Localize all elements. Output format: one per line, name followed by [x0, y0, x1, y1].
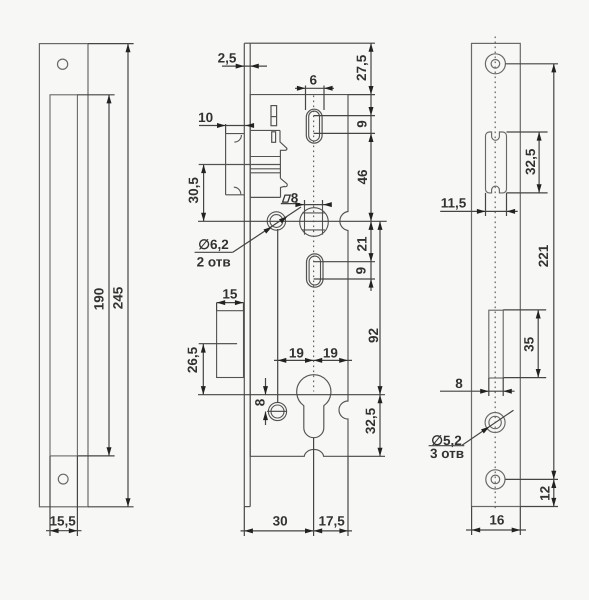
middle view: faceplate bottom edge [244, 506, 250, 508]
middle dim 15: ext line left [216, 303, 218, 311]
middle dim 30-17.5: line [241, 530, 353, 532]
right view: ext deadbolt slot right down [502, 378, 504, 396]
right dim 8: line [440, 390, 515, 392]
left view: extension line slot bottom [77, 455, 114, 457]
middle view: follower square hole top line [302, 212, 325, 214]
left view: dimension 245 top arrow [126, 44, 131, 53]
left view: extension line plate bottom [88, 506, 134, 508]
middle view: deadbolt center line [199, 343, 237, 345]
middle dim 8: top arrow [263, 386, 268, 395]
middle dim 9 bottom: lower arrow [369, 279, 374, 288]
middle dim square8: left arrow [295, 202, 304, 207]
middle view: latch head bevel arc bottom [234, 187, 241, 194]
svg-text:26,5: 26,5 [185, 346, 200, 373]
right dim 11.5: left arrow [477, 209, 486, 214]
middle view: lower oval slot inner [309, 256, 320, 285]
middle dim 32.5: label [363, 407, 378, 434]
right view: ext bottom hole center [505, 478, 558, 480]
middle dim 27.5: label [354, 54, 369, 81]
right view: ext plate right down [519, 507, 521, 536]
right dim 11.5: line [440, 210, 518, 212]
middle dim 27.5: top arrow [369, 43, 374, 52]
middle dim 10: label [198, 110, 213, 125]
middle dim 26.5: bottom arrow [201, 386, 206, 395]
middle view: follower circle [300, 208, 329, 237]
middle dim 30.5: top arrow [201, 165, 206, 174]
middle dim 8: label [253, 398, 268, 406]
svg-text:32,5: 32,5 [523, 148, 538, 175]
right dim 35: top arrow [536, 310, 541, 319]
middle dim 30.5: label [186, 177, 201, 204]
middle callout 6.2: label [198, 237, 229, 252]
middle view: latch mechanism bottom edge [250, 196, 280, 198]
middle view: latch head front rect left edge [225, 134, 227, 195]
svg-text:9: 9 [354, 120, 369, 128]
middle right col1: dimension line [370, 43, 372, 291]
middle view: upper fixing hole outer [267, 212, 285, 230]
middle dim 30.5: bottom arrow [201, 213, 206, 222]
left view: dimension 245 bottom arrow [126, 498, 131, 507]
middle dim 19-19: left arrow [278, 358, 287, 363]
left view: extension line slot right edge down [76, 456, 78, 536]
svg-text:16: 16 [489, 512, 505, 527]
middle dim square8: line [297, 204, 331, 206]
middle dim 10: right arrow [246, 123, 255, 128]
svg-text:15,5: 15,5 [49, 514, 76, 529]
right dim 11.5: label [441, 196, 467, 211]
middle view: latch mechanism catch tooth and lower edge [280, 178, 287, 197]
middle view: fixing holes vertical centerline [277, 229, 279, 403]
svg-text:9: 9 [354, 267, 369, 275]
middle view: latch spring line 3 [250, 172, 280, 174]
middle dim 21: label [355, 236, 370, 252]
middle dim 6: left arrow [297, 86, 306, 91]
middle dim 9 top: upper arrow [369, 107, 374, 116]
right dim 11.5: right arrow [507, 209, 516, 214]
middle view: small rect hole upper divider [271, 116, 277, 118]
svg-text:30,5: 30,5 [186, 177, 201, 204]
svg-text:2,5: 2,5 [218, 51, 237, 66]
middle view: latch head front rect bottom edge [226, 194, 245, 196]
middle dim 30-17.5: label 17.5 [318, 513, 345, 528]
middle dim 15: right arrow [235, 300, 244, 305]
middle dim 26.5: label [185, 346, 200, 373]
middle dim 19-19: label right [323, 346, 338, 361]
middle view: ext line cylinder horizontal centerline [198, 394, 385, 396]
middle dim 30.5: line [203, 165, 205, 222]
left view: dimension 190 bottom arrow [107, 447, 112, 456]
right dim 35: line [537, 310, 539, 378]
middle dim square8: ext right [322, 200, 324, 206]
middle dim 6: right arrow [324, 86, 333, 91]
right dim 16: label [489, 512, 505, 527]
svg-text:21: 21 [355, 236, 370, 252]
middle view: ext line body right down [347, 456, 349, 536]
right view: bottom screw hole outer [486, 470, 505, 489]
svg-text:27,5: 27,5 [354, 54, 369, 81]
right dim 12: bottom arrow [551, 498, 556, 507]
right view: middle fixing hole outer [485, 413, 505, 433]
right dim 8: left arrow [480, 389, 489, 394]
middle dim 92: label [366, 328, 381, 343]
left view: extension line plate top [88, 43, 134, 45]
middle view: latch spring line 2 [250, 168, 280, 170]
svg-text:17,5: 17,5 [318, 513, 345, 528]
middle view: lower fixing hole outer [268, 402, 286, 420]
middle view: latch head bevel arc top [234, 135, 241, 142]
right dim 12: top arrow [551, 479, 556, 488]
middle view: faceplate strip left line [243, 43, 245, 506]
right view: deadbolt slot rectangle [489, 310, 503, 378]
right dim 16: left arrow [472, 528, 481, 533]
svg-text:19: 19 [289, 346, 304, 361]
svg-text:19: 19 [323, 346, 338, 361]
middle dim 9 bottom: label [354, 267, 369, 275]
middle view: ext line top oval upper center [314, 115, 375, 117]
right dim 8: label [455, 376, 463, 391]
middle view: ext line body bottom to right [348, 455, 385, 457]
right view: middle fixing hole inner [489, 416, 501, 428]
right callout 5.2: label [431, 433, 462, 448]
right dim 32.5: label [523, 148, 538, 175]
middle dim 2.5: right arrow [250, 64, 259, 69]
left view: dimension 190 line [108, 95, 110, 456]
right view: ext latch slot right down [506, 193, 508, 216]
middle dim 46: label [355, 169, 370, 185]
middle dim square8: ext left [304, 200, 306, 206]
right dim 32.5: bottom arrow [537, 184, 542, 193]
middle dim 30-17.5: center arrow right [314, 528, 323, 533]
svg-text:3 отв: 3 отв [430, 446, 464, 461]
middle dim 8: top tail [265, 378, 267, 395]
middle view: faceplate top edge [244, 42, 250, 44]
middle callout 6.2: label otv [197, 255, 231, 270]
right dim 35: bottom arrow [536, 369, 541, 378]
left view: dimension 190 top arrow [107, 95, 112, 104]
svg-text:8: 8 [455, 376, 463, 391]
right view: ext latch slot top [507, 131, 548, 133]
middle dim 9 top: label [354, 120, 369, 128]
middle dim 92: top arrow [378, 221, 383, 230]
middle view: latch head front rect top edge [226, 133, 245, 135]
svg-text:2 отв: 2 отв [197, 255, 231, 270]
middle callout 6.2: leader arrow 2 [279, 217, 288, 224]
middle dim square8: symbol [283, 195, 291, 202]
right dim 221: label [536, 244, 551, 267]
right view: dotted centerline [494, 37, 496, 511]
middle view: ext line follower horizontal centerline [198, 220, 387, 222]
middle callout 6.2: underline [195, 251, 233, 253]
left view: top screw hole [58, 59, 68, 69]
right view: ext deadbolt slot top [503, 309, 546, 311]
middle dim 6: label [310, 73, 318, 88]
middle dim 8: bottom arrow [263, 412, 268, 421]
middle view: latch axis full line [199, 164, 281, 166]
middle dim 32.5: bottom arrow [378, 448, 383, 457]
svg-text:11,5: 11,5 [441, 196, 467, 211]
middle dim 32.5: top arrow [378, 395, 383, 404]
middle view: latch spring line 1 [250, 156, 280, 158]
left view: dimension 245 line [127, 44, 129, 507]
svg-text:221: 221 [536, 244, 551, 267]
left view: dimension 15.5 label [49, 514, 76, 529]
right dim 12: label [538, 486, 553, 501]
middle view: vertical dotted centerline [313, 96, 315, 392]
middle dim 2.5: left arrow [236, 64, 245, 69]
middle view: lower fixing hole horizontal centerline [267, 410, 287, 412]
right callout 5.2: label otv [430, 446, 464, 461]
right dim 35: label [522, 336, 537, 352]
middle dim 19-19: center arrow left [305, 358, 314, 363]
middle dim 10: ext line latch left edge up [225, 124, 227, 134]
right dim 221: bottom arrow [551, 471, 556, 480]
middle dim 6: line [295, 87, 334, 89]
middle dim 15: ext line right [243, 303, 245, 311]
right callout 5.2: leader line [462, 410, 514, 445]
middle dim 2.5: label [218, 51, 237, 66]
middle view: latch mechanism top edge [250, 129, 280, 131]
right view: faceplate front outline [472, 43, 521, 506]
svg-text:245: 245 [110, 286, 125, 309]
left view: dimension 190 label [92, 288, 107, 311]
middle dim 46: bottom arrow [369, 213, 374, 222]
right view: ext latch slot left down [485, 193, 487, 216]
middle view: follower square hole bottom line [302, 229, 325, 231]
right callout 5.2: underline [429, 445, 465, 447]
right view: ext latch slot bottom [507, 192, 548, 194]
middle dim 30-17.5: left arrow [244, 528, 253, 533]
left view: dimension 15.5 left arrow [50, 528, 59, 533]
middle view: euro cylinder profile hole [297, 375, 331, 438]
middle view: small rect hole lower [272, 132, 276, 143]
middle dim 15: line [217, 302, 244, 304]
right dim 32.5: top arrow [537, 132, 542, 141]
middle dim 30-17.5: center arrow left [305, 528, 314, 533]
middle dim 15: left arrow [217, 300, 226, 305]
middle dim 6: ext line left [305, 86, 307, 111]
middle view: top oval slot inner [309, 111, 320, 141]
right dim 221: top arrow [551, 64, 556, 73]
middle dim square8: label 8 [291, 191, 299, 206]
left view: inner slot (case cavity) rectangle [50, 95, 77, 456]
middle view: top oval slot outer [306, 109, 322, 143]
right dim 32.5: line [538, 132, 540, 193]
middle callout 6.2: leader arrow 1 [264, 227, 273, 234]
right dim 16: right arrow [512, 528, 521, 533]
svg-text:30: 30 [273, 513, 288, 528]
middle dim 19-19: line [274, 359, 352, 361]
middle dim 21: bottom arrow [369, 253, 374, 262]
middle view: ext line lower oval upper center [314, 261, 375, 263]
middle dim 19-19: label left [289, 346, 304, 361]
right dim 12: line [553, 479, 555, 506]
middle view: ext line faceplate left down [243, 507, 245, 536]
middle view: latch mechanism right profile upper [280, 130, 287, 178]
middle view: ext line body top to right [348, 94, 375, 96]
middle dim 6: ext line right [323, 86, 325, 111]
middle view: ext line lower oval lower center [314, 278, 375, 280]
left view: dimension 15.5 right arrow [69, 528, 78, 533]
left view: extension line slot left edge down [49, 456, 51, 536]
left view: bottom screw hole [58, 474, 68, 484]
middle dim 27.5: bottom arrow [369, 86, 374, 95]
middle dim square8: underline [281, 203, 300, 205]
svg-text:12: 12 [538, 486, 553, 501]
middle view: lower oval slot outer [307, 254, 324, 287]
right view: ext deadbolt slot left down [488, 378, 490, 396]
right view: ext top hole center [506, 63, 559, 65]
svg-text:35: 35 [522, 336, 537, 352]
middle dim 15: label [222, 287, 238, 302]
middle dim 30-17.5: right arrow [339, 528, 348, 533]
middle dim 21: top arrow [369, 221, 374, 230]
middle view: faceplate strip right line [249, 43, 251, 506]
middle view: upper fixing hole inner [270, 215, 283, 228]
svg-text:8: 8 [253, 398, 268, 406]
right dim 16: line [466, 529, 526, 531]
middle dim square8: right arrow [323, 202, 332, 207]
middle view: lower fixing hole inner [271, 405, 284, 418]
middle dim 30-17.5: label 30 [273, 513, 288, 528]
svg-text:6: 6 [310, 73, 318, 88]
right view: latch slot with waisted ends [486, 132, 507, 193]
right dim 221: line [553, 64, 555, 480]
middle dim 19-19: right arrow [339, 358, 348, 363]
svg-text:∅6,2: ∅6,2 [198, 237, 229, 252]
middle view: follower square hole right line [322, 206, 324, 235]
left view: lock case side plate outline [39, 44, 88, 507]
left view: dimension 15.5 line [46, 530, 82, 532]
svg-text:46: 46 [355, 169, 370, 185]
middle dim 8: bottom tail [265, 412, 267, 426]
right dim 8: right arrow [503, 389, 512, 394]
middle view: cylinder center extension line below [313, 438, 315, 536]
middle dim 9 top: lower arrow [369, 133, 374, 142]
right view: ext plate bottom right [520, 506, 558, 508]
middle view: ext line faceplate top to right [250, 42, 375, 44]
svg-text:32,5: 32,5 [363, 407, 378, 434]
right view: ext deadbolt slot bottom [503, 377, 546, 379]
middle view: ext line top oval lower center [314, 132, 375, 134]
left view: extension line slot top [77, 94, 114, 96]
right view: ext plate left down [471, 507, 473, 536]
svg-text:15: 15 [222, 287, 238, 302]
middle view: follower square hole left line [304, 206, 306, 235]
middle dim 10: left arrow [217, 123, 226, 128]
middle view: small rect hole upper [271, 106, 277, 126]
middle dim 10: line [199, 125, 254, 127]
right view: top screw hole inner [491, 60, 500, 69]
middle dim 19-19: center arrow right [314, 358, 323, 363]
middle dim 26.5: line [202, 344, 204, 395]
middle callout 6.2: leader line [233, 207, 301, 252]
middle dim 92: bottom arrow [378, 386, 383, 395]
left view: dimension 245 label [110, 286, 125, 309]
right view: bottom screw hole inner [491, 475, 500, 484]
middle right col2: dimension line [379, 221, 381, 456]
middle dim 26.5: top arrow [201, 344, 206, 353]
svg-text:190: 190 [92, 288, 107, 311]
right callout 5.2: leader arrow [481, 427, 490, 434]
svg-text:92: 92 [366, 328, 381, 343]
middle view: lock body outline with right-edge and bottom notches [250, 95, 348, 457]
middle dim 2.5: line [222, 65, 267, 67]
middle view: deadbolt front rectangle [217, 311, 244, 378]
svg-text:10: 10 [198, 110, 213, 125]
right view: top screw hole outer [485, 54, 505, 74]
